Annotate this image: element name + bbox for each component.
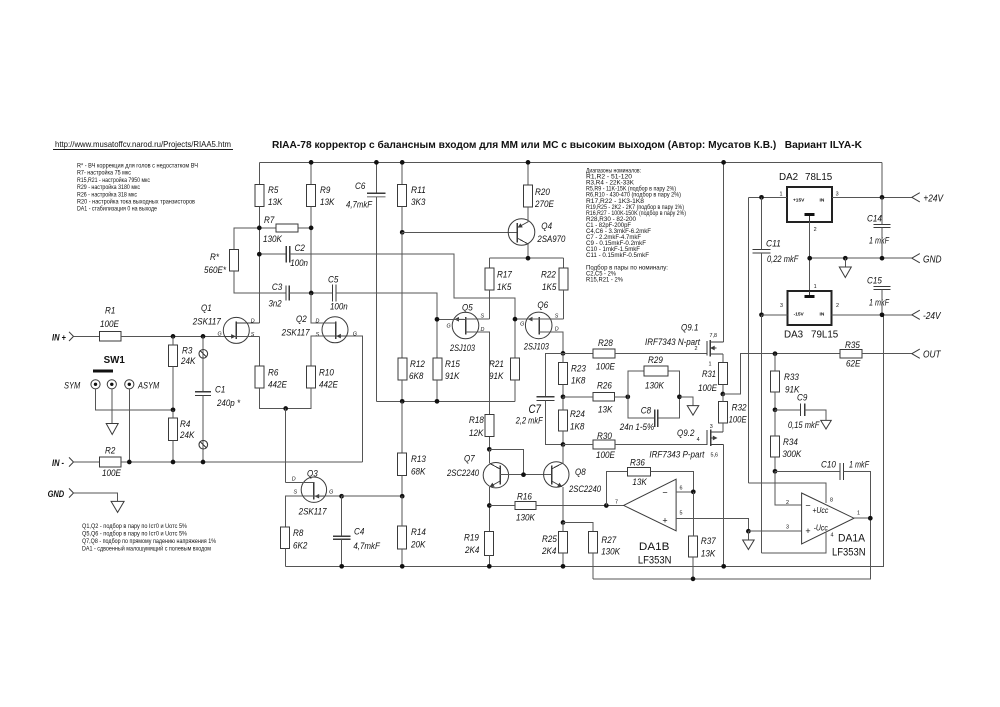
wire R27 jog [563, 523, 593, 532]
svg-text:R22: R22 [541, 270, 556, 281]
svg-text:C9: C9 [797, 393, 808, 404]
resistor R30 [593, 440, 615, 449]
svg-text:R24: R24 [570, 409, 585, 420]
wire Q7 collector stub [488, 449, 490, 463]
svg-text:R18: R18 [469, 415, 484, 426]
wire top positive rail [259, 161, 882, 163]
svg-text:R2: R2 [105, 446, 116, 457]
svg-text:62E: 62E [846, 359, 861, 370]
wire contact3 to IN- row [128, 389, 130, 462]
wire R20 top [527, 162, 529, 185]
node C1 bottom [201, 460, 206, 465]
svg-text:2,2 mkF: 2,2 mkF [515, 416, 544, 427]
capacitor C4 [341, 496, 343, 536]
node rail C4 [339, 564, 344, 569]
node GND pin2 [807, 256, 812, 261]
node R31/R32 [720, 392, 725, 397]
wire C1 column bottom [202, 395, 204, 462]
svg-text:R29 - настройка 3180 мкс: R29 - настройка 3180 мкс [77, 184, 140, 191]
svg-text:C8: C8 [641, 406, 652, 417]
node Q7/Q8 base [521, 472, 526, 477]
wire R16 left [489, 505, 515, 507]
node GND C14/C15 [880, 256, 885, 261]
resistor R21 [511, 358, 520, 380]
node rail R19 [487, 564, 492, 569]
wire DA1A pin3 row [748, 530, 801, 532]
ground SW1 [106, 424, 118, 435]
svg-text:100n: 100n [330, 302, 348, 313]
wire servo rail [593, 518, 871, 579]
wire R31 bottom [722, 385, 724, 395]
switch SW1 contact 3 [125, 380, 134, 389]
svg-text:12K: 12K [469, 428, 484, 439]
capacitor C10 [839, 463, 841, 480]
svg-text:Q9.1: Q9.1 [681, 323, 699, 334]
capacitor C8 [619, 397, 679, 433]
wire R23 bottom [562, 384, 564, 396]
svg-text:C7: C7 [529, 404, 542, 416]
svg-text:R16: R16 [517, 492, 532, 503]
wire node B to R30 [563, 444, 593, 446]
resistor R37 [688, 536, 697, 557]
transistor Q9.2 IRF7343 P-part [707, 429, 724, 446]
svg-text:130K: 130K [263, 234, 282, 245]
wire negative supply rail [286, 315, 884, 567]
node C1 top tap [201, 334, 206, 339]
node R7/R* junction [257, 226, 262, 231]
node C9 tap [773, 407, 778, 412]
svg-text:560E*: 560E* [204, 265, 226, 276]
node C11 top [759, 195, 764, 200]
capacitor C14 [874, 224, 891, 226]
svg-text:2SC2240: 2SC2240 [446, 468, 479, 479]
wire IN- to R2 [74, 461, 100, 463]
wire source rail [376, 400, 515, 402]
svg-text:4,7mkF: 4,7mkF [353, 541, 380, 552]
svg-text:G: G [447, 324, 451, 330]
wire gate row to R13/R14 node [342, 495, 403, 497]
wire R4 top [172, 410, 174, 418]
svg-text:R15,R21 - настройка 7950 мкс: R15,R21 - настройка 7950 мкс [77, 177, 150, 184]
node R3 top tap [171, 334, 176, 339]
wire R28 to Q9.1 gate [615, 352, 707, 354]
svg-text:4: 4 [831, 533, 834, 539]
svg-text:R21: R21 [489, 359, 504, 370]
resistor R31 [718, 363, 727, 385]
svg-text:442E: 442E [268, 380, 287, 391]
resistor R9 [307, 184, 316, 206]
svg-text:130K: 130K [516, 513, 535, 524]
resistor R10 [306, 366, 315, 388]
svg-text:2K4: 2K4 [541, 546, 556, 557]
wire Q9.1 drain to R31 [722, 354, 724, 363]
svg-text:R32: R32 [732, 403, 748, 414]
svg-text:http://www.musatoffcv.narod.ru: http://www.musatoffcv.narod.ru/Projects/… [55, 140, 231, 149]
node Q4 collector [526, 256, 531, 261]
wire Q2 drain [311, 293, 336, 323]
wire R17 bottom to Q5 source [488, 290, 490, 319]
transistor Q5 2SJ103 [452, 312, 479, 339]
svg-text:+: + [662, 516, 667, 526]
wire Q7 base jog [489, 449, 523, 474]
resistor R17 [485, 268, 494, 290]
wire C2 row left [259, 253, 286, 255]
resistor R33 [771, 371, 780, 392]
trimmer symbol top of C1 [199, 350, 208, 359]
wire C3 to C5 [289, 292, 332, 294]
svg-text:3: 3 [836, 192, 839, 198]
svg-text:SYM: SYM [64, 381, 81, 391]
wire Q5 gate row [437, 318, 466, 320]
resistor R5 [255, 184, 264, 206]
svg-text:S: S [251, 332, 255, 338]
wire R18 bottom to Q7 collector node [488, 437, 490, 450]
transistor Q2 2SK117 [322, 317, 348, 343]
wire R9 bottom column [310, 206, 312, 293]
resistor R4 [169, 418, 178, 441]
svg-text:Q3: Q3 [307, 469, 318, 480]
node R33 top tap [773, 351, 778, 356]
ground DA1 inputs [743, 540, 755, 550]
wire R14 top [401, 496, 403, 526]
op-amp DA1B LF353N [615, 479, 683, 566]
svg-text:DA1B: DA1B [639, 541, 670, 553]
svg-text:13K: 13K [598, 405, 613, 416]
svg-text:D: D [251, 318, 255, 324]
resistor R15 [433, 358, 442, 380]
resistor R22 [559, 268, 568, 290]
svg-text:C10: C10 [821, 460, 836, 471]
switch SW1 contact 1 [91, 380, 100, 389]
switch SW1 bar [93, 369, 113, 372]
wire R25 bottom [562, 553, 564, 566]
resistor R16 [515, 501, 536, 509]
wire C6 top [375, 162, 377, 193]
wire R* top jog [234, 228, 259, 250]
svg-text:Q4: Q4 [541, 221, 552, 232]
svg-text:S: S [316, 332, 320, 338]
wire +Ucc feed [748, 483, 826, 503]
wire Q2 source to R10 [311, 336, 336, 366]
svg-text:R*: R* [210, 252, 219, 263]
svg-text:SW1: SW1 [104, 355, 126, 366]
node rail dots [309, 160, 314, 165]
svg-text:Q6: Q6 [537, 300, 548, 311]
svg-text:R* - ВЧ коррекция для голов с: R* - ВЧ коррекция для голов с недостатко… [77, 164, 198, 170]
wire R* bottom to C3 [234, 271, 286, 293]
svg-text:0,15 mkF: 0,15 mkF [788, 420, 820, 431]
wire C1 column top [202, 336, 204, 391]
svg-text:8: 8 [830, 498, 833, 504]
node +24V / C14 [880, 195, 885, 200]
svg-text:IRF7343 P-part: IRF7343 P-part [649, 450, 704, 461]
wire R23 top [562, 353, 564, 362]
svg-text:LF353N: LF353N [638, 555, 672, 567]
svg-text:6K8: 6K8 [409, 371, 424, 382]
resistor R20 [524, 185, 533, 207]
resistor R34 [770, 436, 779, 457]
wire Q5 drain row [466, 332, 490, 415]
svg-text:R34: R34 [783, 437, 798, 448]
svg-text:2SK117: 2SK117 [192, 317, 221, 328]
wire Q2 gate column [336, 336, 363, 462]
svg-text:5: 5 [680, 511, 683, 517]
svg-text:79L15: 79L15 [811, 330, 839, 341]
svg-text:91K: 91K [445, 371, 460, 382]
svg-text:20K: 20K [410, 540, 426, 551]
svg-text:DA3: DA3 [784, 330, 804, 341]
svg-text:2: 2 [814, 227, 817, 233]
wire IN+ to R1 [74, 335, 100, 337]
wire R3 bottom [172, 366, 174, 409]
wire DA1B pin6 row [676, 491, 693, 493]
svg-text:100E: 100E [729, 415, 748, 426]
svg-text:G: G [520, 321, 524, 327]
wire R19 bottom [488, 556, 490, 567]
node Q3 gate / C4 [339, 494, 344, 499]
node GND triangle [843, 256, 848, 261]
wire R13 bottom to node [401, 476, 403, 497]
trimmer symbol bottom of C1 [199, 440, 208, 449]
svg-text:24K: 24K [179, 430, 195, 441]
svg-text:1K5: 1K5 [497, 282, 512, 293]
wire IN- row [121, 461, 362, 463]
svg-text:2SJ103: 2SJ103 [523, 342, 549, 353]
wire C5 to Q5 gate column [336, 293, 437, 358]
transistor Q1 2SK117 [223, 317, 249, 343]
svg-text:R11: R11 [411, 185, 426, 196]
ground C9 [821, 420, 832, 429]
svg-text:R23: R23 [571, 364, 586, 375]
svg-text:R10: R10 [319, 368, 334, 379]
svg-text:R7: R7 [264, 215, 275, 226]
wire Q5 source row [466, 318, 490, 320]
svg-text:-24V: -24V [923, 311, 942, 322]
node rail R14 [400, 564, 405, 569]
svg-text:G: G [218, 331, 222, 337]
transistor Q4 2SA970 [508, 219, 535, 246]
svg-text:13K: 13K [632, 477, 647, 488]
wire +24V drop [881, 162, 883, 197]
regulator DA2 78L15 [779, 172, 839, 233]
capacitor C3 [285, 285, 287, 300]
svg-text:R35: R35 [845, 340, 860, 351]
node Q2 drain [309, 291, 314, 296]
svg-text:Q1: Q1 [201, 303, 212, 314]
svg-text:100E: 100E [596, 450, 615, 461]
wire R15 bottom [436, 380, 438, 401]
svg-text:1: 1 [814, 284, 817, 290]
wire R37 top [692, 492, 694, 536]
svg-text:C2: C2 [295, 243, 306, 254]
svg-text:100E: 100E [102, 468, 121, 479]
wire C7 bottom jog [545, 400, 563, 444]
svg-text:2SA970: 2SA970 [537, 234, 566, 245]
resistor R28 [593, 349, 615, 358]
wire R26 to R29 node [614, 396, 627, 398]
wire GND to ground [74, 493, 118, 501]
ground input GND [111, 501, 124, 512]
svg-text:R33: R33 [784, 372, 799, 383]
wire Q3 gate row [314, 495, 342, 497]
svg-text:C1: C1 [215, 385, 225, 396]
svg-text:RIAA-78 корректор с балансным: RIAA-78 корректор с балансным входом для… [272, 140, 862, 151]
resistor R19 [485, 532, 494, 556]
wire Q1 drain column [258, 206, 260, 323]
svg-text:3: 3 [780, 303, 783, 309]
node Q4 base junction [400, 230, 405, 235]
svg-text:-Ucc: -Ucc [814, 524, 828, 533]
wire node to R26 [563, 396, 593, 398]
svg-text:IN: IN [820, 312, 825, 318]
connector +24V [912, 193, 920, 202]
transistor Q9.1 IRF7343 N-part [707, 340, 724, 357]
wire Q7 base row [500, 474, 551, 476]
svg-text:7,8: 7,8 [710, 333, 718, 339]
svg-text:G: G [329, 490, 333, 496]
svg-text:R4: R4 [180, 419, 190, 430]
node Q7 collector [487, 447, 492, 452]
svg-text:C11: C11 [766, 239, 781, 250]
svg-text:2: 2 [836, 303, 839, 309]
svg-text:1 mkF: 1 mkF [869, 236, 890, 247]
svg-text:+Ucc: +Ucc [812, 506, 828, 515]
svg-text:R5: R5 [268, 185, 279, 196]
wire C10 left row [775, 470, 840, 472]
svg-text:1K8: 1K8 [571, 376, 586, 387]
svg-text:3: 3 [710, 424, 713, 430]
svg-text:IN: IN [820, 198, 825, 204]
capacitor C2 [285, 246, 287, 262]
resistor R3 [169, 345, 178, 366]
wire node A to R28 [563, 352, 593, 354]
svg-text:R1: R1 [105, 306, 115, 317]
wire to ground after C8 [679, 397, 693, 406]
wire C4 bottom [341, 539, 343, 566]
wire C11 column top [761, 197, 763, 249]
svg-text:130K: 130K [601, 547, 620, 558]
svg-text:4,7mkF: 4,7mkF [346, 200, 373, 211]
wire Q8 emitter column [562, 487, 564, 523]
wire R32 top [722, 394, 724, 401]
svg-text:R8: R8 [293, 528, 304, 539]
svg-text:R7- настройка 75 мкс: R7- настройка 75 мкс [77, 170, 131, 177]
wire C11 column bottom [761, 253, 763, 315]
wire R3 top [172, 336, 174, 345]
svg-text:5,6: 5,6 [711, 453, 719, 459]
wire R17 top [488, 258, 490, 268]
resistor R13 [398, 453, 407, 476]
wire C14 top [881, 197, 883, 224]
wire Q4 output row [489, 257, 563, 259]
transistor Q6 2SJ103 [525, 312, 552, 339]
wire R6/R10 tail junction [259, 388, 311, 409]
svg-text:R36: R36 [630, 458, 645, 469]
wire R34 top [774, 410, 776, 436]
wire DA3 pin3 row [762, 314, 788, 316]
wire Q7 emitter column [488, 487, 490, 532]
svg-text:2K4: 2K4 [464, 545, 479, 556]
wire +15V row [748, 196, 787, 198]
wire R34 node to DA1A pin2 [775, 471, 802, 505]
svg-text:R30: R30 [597, 431, 612, 442]
resistor R26 [593, 393, 614, 401]
node ground pin5/pin3 [746, 529, 751, 534]
ground power GND [839, 267, 851, 278]
svg-text:C11 - 0.15mkF-0.5mkF: C11 - 0.15mkF-0.5mkF [586, 253, 649, 259]
svg-text:R37: R37 [701, 536, 716, 547]
node R23/R24/R26 [561, 394, 566, 399]
node R13/R14 [400, 494, 405, 499]
wire C15 bottom [881, 290, 883, 315]
resistor R24 [559, 410, 568, 431]
wire GND triangle stub [844, 258, 846, 267]
node R4 bottom [171, 460, 176, 465]
node -24V C15 [880, 312, 885, 317]
wire GND row [810, 257, 912, 259]
svg-text:R28: R28 [598, 338, 613, 349]
wire C6 bottom column [375, 197, 377, 401]
wire Q3 source [286, 496, 314, 527]
wire R12 column [401, 232, 403, 358]
svg-text:1K5: 1K5 [542, 282, 557, 293]
capacitor C11 [753, 249, 771, 251]
svg-text:270E: 270E [534, 199, 554, 210]
wire R22 top [563, 258, 565, 268]
svg-text:3: 3 [786, 525, 789, 531]
node C2 left [257, 252, 262, 257]
resistor R* [230, 250, 239, 272]
svg-text:Q7,Q8 - подбор по прямому паде: Q7,Q8 - подбор по прямому падению напряж… [82, 539, 217, 545]
svg-text:2SJ103: 2SJ103 [449, 343, 475, 354]
svg-text:GND: GND [923, 255, 942, 266]
svg-text:+: + [805, 526, 810, 536]
svg-text:R31: R31 [702, 369, 716, 380]
wire ground stub [747, 531, 749, 540]
resistor R36 [606, 458, 693, 506]
svg-text:D: D [292, 477, 296, 483]
svg-text:130K: 130K [645, 381, 664, 392]
svg-text:S: S [555, 313, 559, 319]
svg-text:R15,R21 - 2%: R15,R21 - 2% [586, 277, 624, 283]
capacitor C7 [536, 396, 554, 398]
wire R22 bottom to Q6 source [563, 290, 565, 319]
svg-text:G: G [353, 331, 357, 337]
capacitor C6 [367, 192, 386, 194]
wire Q1 source to R6 [236, 335, 259, 337]
svg-text:ASYM: ASYM [137, 381, 160, 391]
svg-text:68K: 68K [411, 467, 426, 478]
resistor R29 [628, 355, 680, 397]
wire Q4 collector bottom [527, 244, 529, 258]
svg-text:DA1 - сдвоенный малошумящий с: DA1 - сдвоенный малошумящий с полевым вх… [82, 546, 211, 553]
capacitor C5 [332, 284, 334, 301]
svg-text:13K: 13K [268, 197, 283, 208]
transistor Q8 2SC2240 [544, 462, 569, 487]
svg-text:13K: 13K [320, 197, 335, 208]
node R29/C8 right [677, 394, 682, 399]
wire Q4 emitter top [527, 207, 529, 222]
wire R14 bottom [401, 549, 403, 566]
svg-text:R3: R3 [182, 346, 193, 357]
svg-text:240p *: 240p * [216, 398, 240, 409]
svg-text:C14: C14 [867, 214, 882, 225]
ground C8 node [687, 406, 699, 416]
wire tail to Q3 drain [285, 409, 287, 483]
svg-text:2: 2 [786, 500, 789, 506]
resistor R32 [718, 401, 727, 423]
svg-text:78L15: 78L15 [805, 172, 833, 183]
